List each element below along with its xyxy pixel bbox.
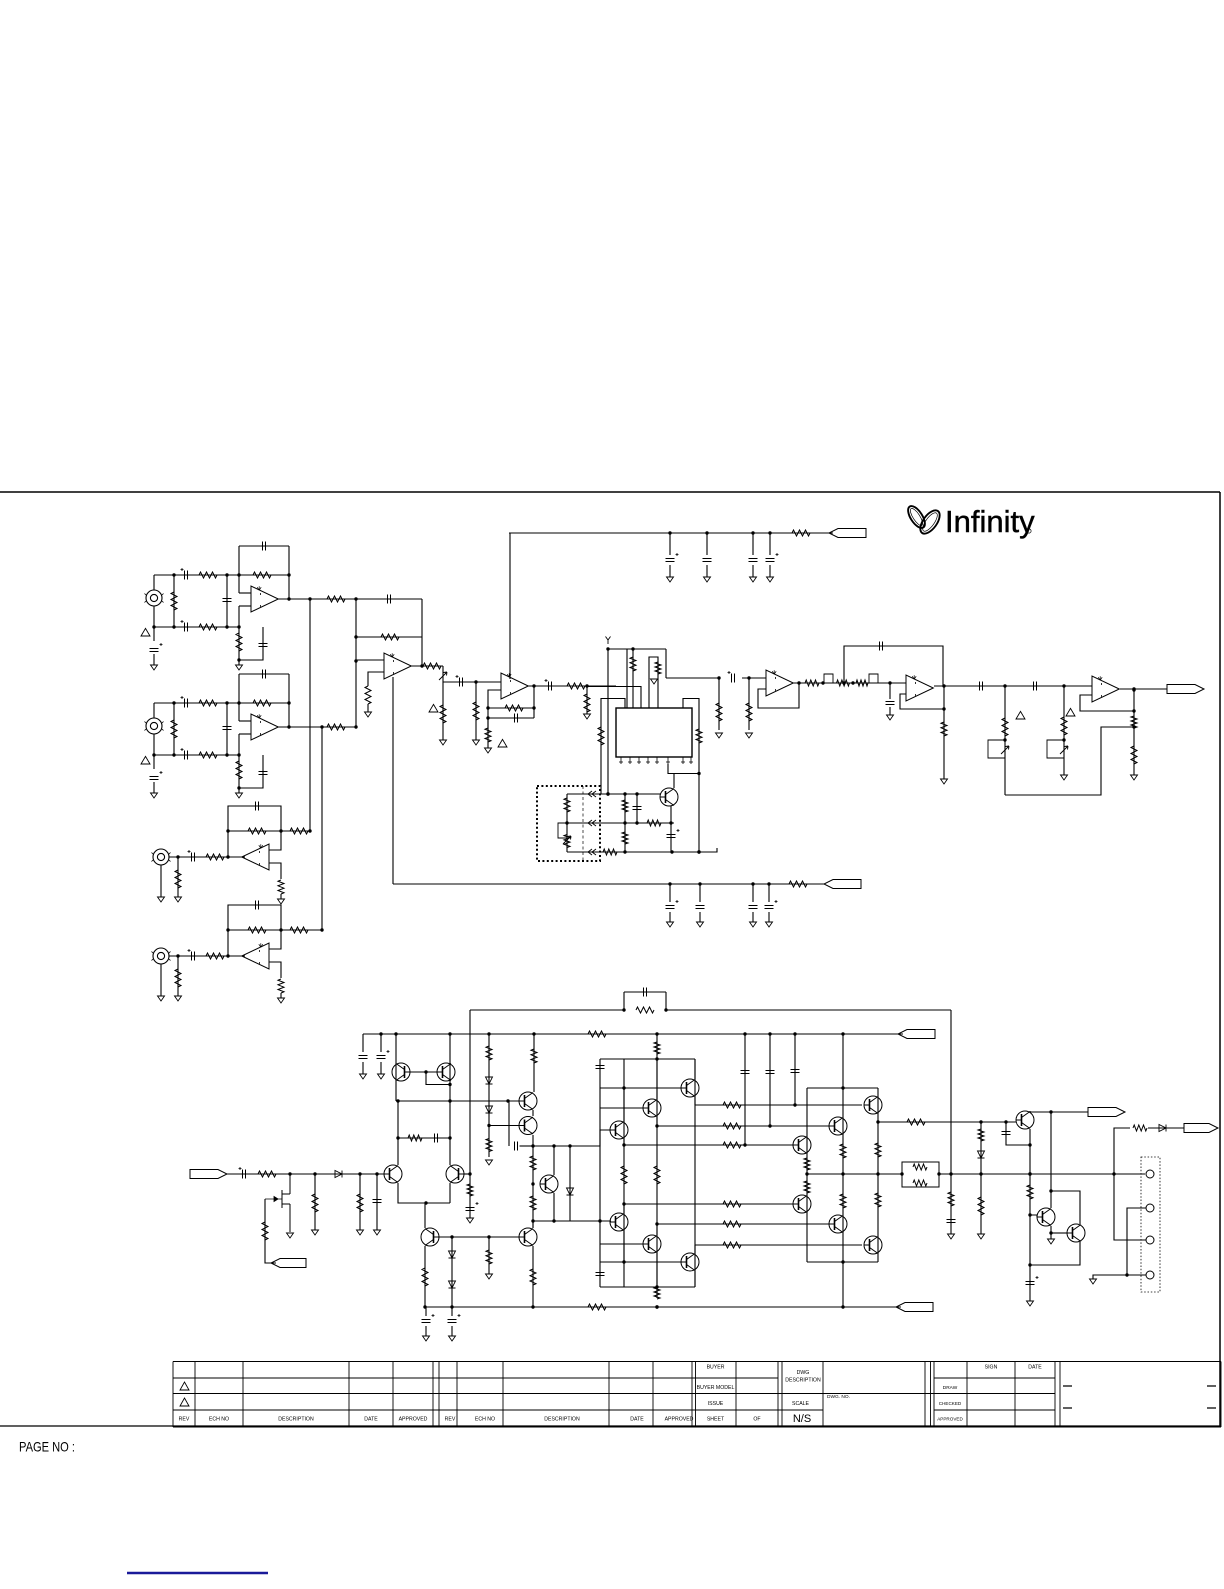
resistor feedback U3 — [505, 705, 523, 711]
junction — [1049, 1189, 1052, 1192]
junction — [531, 1305, 534, 1308]
junction — [768, 1124, 771, 1127]
junction — [531, 1144, 534, 1147]
diode series — [335, 1171, 342, 1178]
resistor cross 2 — [723, 1123, 741, 1129]
ground — [357, 1230, 364, 1235]
junction — [225, 625, 228, 628]
junction rail A — [793, 1032, 796, 1035]
wire — [694, 1245, 696, 1253]
junction — [697, 850, 700, 853]
wire — [670, 806, 672, 823]
wire — [380, 1062, 382, 1074]
wire — [934, 685, 1092, 687]
resistor rail A — [588, 1031, 606, 1037]
trimmer box a — [988, 740, 1005, 758]
wire — [586, 686, 588, 714]
wire — [668, 764, 699, 774]
wire — [567, 848, 717, 852]
wire — [694, 1059, 696, 1079]
junction — [797, 681, 800, 684]
junction — [842, 681, 845, 684]
wire — [623, 1059, 625, 1287]
resistor level a — [1002, 718, 1008, 736]
wire — [699, 912, 701, 922]
wire — [228, 929, 281, 931]
resistor box inner — [564, 798, 570, 812]
wire — [226, 703, 228, 755]
junction — [1028, 1143, 1031, 1146]
resistor row bottom — [603, 849, 617, 855]
wire — [1006, 1122, 1030, 1145]
wire — [699, 884, 701, 902]
diode leg 981 — [978, 1151, 985, 1158]
junction — [664, 1008, 667, 1011]
junction rail cap — [768, 531, 771, 534]
capacitor cc — [435, 1134, 438, 1143]
capacitor feedback — [263, 670, 266, 679]
ground — [486, 1274, 493, 1279]
junction — [622, 1143, 625, 1146]
wire — [877, 1088, 879, 1262]
junction — [623, 850, 626, 853]
IC bottom pins — [619, 757, 693, 764]
junction — [531, 1182, 534, 1185]
dashed inner divider — [582, 786, 584, 861]
junction — [1132, 687, 1135, 690]
junction — [623, 792, 626, 795]
svg-text:PAGE NO :: PAGE NO : — [19, 1440, 75, 1455]
junction — [152, 625, 155, 628]
junction rail cap — [751, 531, 754, 534]
wire — [153, 627, 155, 641]
resistor bleed — [978, 1197, 984, 1215]
wire — [752, 884, 754, 902]
wire — [239, 720, 251, 722]
wire — [489, 1125, 519, 1127]
transistor T9 output — [793, 1136, 811, 1154]
wire — [424, 1204, 426, 1228]
resistor fb bump — [636, 1007, 654, 1013]
capacitor feedback — [263, 542, 266, 551]
capacitor to ground — [259, 644, 268, 647]
capacitor rail2 decouple — [666, 906, 675, 909]
wire — [794, 1034, 796, 1105]
junction — [237, 786, 240, 789]
wire — [281, 929, 322, 931]
wire — [900, 686, 944, 709]
wire — [449, 1183, 451, 1203]
wire — [269, 962, 281, 978]
resistor feedback — [253, 572, 271, 578]
wire — [752, 533, 754, 555]
op-amp U6 — [1092, 676, 1119, 702]
svg-text:BUYER MODEL: BUYER MODEL — [697, 1385, 735, 1391]
junction — [172, 625, 175, 628]
junction — [448, 1099, 451, 1102]
wire — [442, 682, 444, 740]
wire — [669, 533, 671, 555]
resistor shunt U3 in — [473, 702, 479, 720]
resistor to bus — [290, 927, 308, 933]
junction — [622, 1260, 625, 1263]
junction — [655, 1124, 658, 1127]
wire — [227, 702, 289, 704]
wire — [278, 726, 356, 728]
wire — [1030, 1242, 1080, 1265]
dotted box Vbe network — [537, 786, 600, 861]
wire — [177, 956, 179, 996]
wire — [553, 1146, 555, 1175]
capacitor col 745 — [741, 1071, 750, 1074]
resistor shunt IC in — [584, 694, 590, 712]
resistor R stage1 out — [327, 596, 345, 602]
resistor q10 emitter — [422, 1268, 428, 1286]
capacitor q11 — [1026, 1282, 1035, 1285]
resistor IC top 1 — [630, 657, 636, 671]
diode bias 2 — [486, 1106, 493, 1113]
capacitor feedback U2b — [388, 595, 391, 604]
junction — [841, 1086, 844, 1089]
junction rail2 cap — [668, 882, 671, 885]
capacitor pa in — [243, 1170, 246, 1179]
junction — [1049, 1110, 1052, 1113]
wire — [278, 598, 356, 600]
wire — [239, 733, 251, 735]
resistor col 843 b — [840, 1194, 846, 1208]
wire — [533, 1130, 611, 1146]
junction rail A — [841, 1032, 844, 1035]
op-amp U3 — [501, 673, 528, 699]
wire — [656, 1034, 658, 1298]
capacitor shunt — [223, 599, 232, 602]
wire — [228, 830, 281, 832]
wire — [173, 703, 175, 755]
capacitor zobel — [947, 1220, 956, 1223]
capacitor fb bump — [644, 988, 647, 997]
wire — [154, 702, 227, 704]
wire — [1114, 1128, 1146, 1240]
wire — [567, 822, 674, 824]
wire — [649, 657, 658, 708]
wire — [405, 1071, 442, 1073]
revision triangle 2 — [180, 1398, 189, 1406]
svg-text:DWG. NO.: DWG. NO. — [827, 1394, 850, 1400]
wire — [718, 678, 720, 730]
wire — [669, 565, 671, 577]
resistor zobel — [948, 1192, 954, 1206]
ground — [697, 922, 704, 927]
wire — [706, 533, 708, 555]
wire — [487, 718, 489, 748]
junction — [585, 684, 588, 687]
transistor Q2 diff — [384, 1165, 402, 1183]
delta marker U3 — [429, 704, 438, 712]
capacitor feedback U3 — [515, 714, 518, 723]
wire — [280, 894, 282, 899]
wire — [288, 546, 290, 599]
resistor row mid — [647, 820, 661, 826]
capacitor col 795 — [791, 1070, 800, 1073]
trimmer wiper b — [1060, 746, 1068, 754]
capacitor rail2 decouple — [749, 906, 758, 909]
wire — [227, 1173, 384, 1175]
wire — [807, 1173, 902, 1175]
resistor shunt — [171, 720, 177, 738]
wire — [509, 532, 833, 534]
ground — [887, 715, 894, 720]
resistor shunt — [175, 969, 181, 987]
capacitor rail decouple — [766, 559, 775, 562]
terminal 1 — [1146, 1170, 1154, 1178]
wire — [695, 1244, 862, 1246]
wire — [160, 964, 162, 996]
resistor line 1122 — [907, 1119, 925, 1125]
capacitor series — [192, 853, 195, 862]
junction — [1049, 1231, 1052, 1234]
wire — [469, 1174, 471, 1218]
resistor series — [206, 953, 224, 959]
connector rail B — [896, 1303, 933, 1312]
ground — [766, 922, 773, 927]
wire — [177, 857, 179, 897]
wire — [769, 533, 771, 555]
delta marker — [141, 756, 150, 764]
wire — [488, 707, 534, 709]
IC U10 body — [616, 708, 692, 757]
junction rail cap — [668, 531, 671, 534]
ground — [151, 793, 158, 798]
wire feedback left — [238, 546, 240, 593]
ground — [175, 996, 182, 1001]
capacitor rail decouple — [703, 559, 712, 562]
trimmer box — [558, 823, 567, 838]
ground — [750, 577, 757, 582]
junction — [486, 716, 489, 719]
junction — [841, 1305, 844, 1308]
capacitor U5 in — [886, 702, 895, 705]
connector power in — [190, 1170, 227, 1179]
resistor rail B — [588, 1304, 606, 1310]
junction bus 4 — [320, 928, 323, 931]
wire — [488, 1034, 490, 1157]
capacitor coupling a — [980, 682, 983, 691]
op-amp U5 — [906, 675, 933, 701]
resistor col top — [654, 1042, 660, 1054]
transistor Q6 vbe — [519, 1092, 537, 1110]
wire — [362, 1034, 364, 1052]
capacitor to ground — [259, 772, 268, 775]
junction — [1028, 1172, 1031, 1175]
capacitor block edge top — [596, 1066, 605, 1069]
junction — [287, 701, 290, 704]
wire — [488, 717, 534, 719]
junction — [474, 680, 477, 683]
wire — [239, 545, 289, 547]
svg-text:ISSUE: ISSUE — [708, 1401, 724, 1407]
resistor link b — [856, 680, 868, 686]
ground — [1048, 1239, 1055, 1244]
ground — [1090, 1279, 1097, 1284]
wire — [426, 1072, 450, 1085]
wire — [1063, 686, 1065, 775]
wire — [656, 1224, 658, 1235]
blue underline mark — [127, 1572, 268, 1574]
resistor shunt — [171, 592, 177, 610]
resistor series bottom — [199, 752, 217, 758]
border frame bottom — [0, 1425, 1220, 1427]
junction — [424, 1070, 427, 1073]
wire — [632, 649, 634, 708]
resistor RL bottom — [913, 1180, 927, 1186]
connector rail A — [898, 1030, 935, 1039]
junction rail A — [394, 1032, 397, 1035]
wire — [362, 1062, 364, 1074]
svg-text:SCALE: SCALE — [792, 1401, 810, 1407]
wire — [669, 912, 671, 922]
capacitor rail A 2 — [377, 1056, 386, 1059]
wire — [666, 1009, 951, 1011]
wire — [878, 1121, 1016, 1123]
junction — [670, 850, 673, 853]
wire — [600, 1286, 695, 1288]
wire — [239, 755, 263, 788]
wire — [950, 1174, 952, 1234]
junction — [565, 821, 568, 824]
junction — [354, 597, 357, 600]
wire — [442, 666, 444, 682]
junction — [1003, 684, 1006, 687]
junction rail A — [768, 1032, 771, 1035]
wire — [939, 1173, 1145, 1175]
wire — [532, 1246, 534, 1307]
resistor shunt a — [312, 1194, 318, 1212]
wire — [532, 1135, 534, 1228]
junction — [942, 684, 945, 687]
junction — [176, 954, 179, 957]
wire — [451, 1307, 453, 1316]
wire — [488, 690, 501, 733]
ground — [767, 577, 774, 582]
ground — [485, 748, 492, 753]
capacitor 1006 — [1002, 1132, 1011, 1135]
svg-text:BUYER: BUYER — [707, 1365, 725, 1371]
junction — [279, 928, 282, 931]
ground — [1027, 1301, 1034, 1306]
junction — [851, 681, 854, 684]
connector V+ supply — [829, 529, 866, 538]
diode bias 1 — [486, 1077, 493, 1084]
wire — [752, 565, 754, 577]
junction — [424, 1201, 427, 1204]
svg-text:Infinity: Infinity — [945, 504, 1035, 539]
resistor vbe top — [531, 1049, 537, 1063]
ground — [667, 577, 674, 582]
resistor vbe a — [530, 1156, 536, 1170]
transistor Q11 protect — [1016, 1111, 1034, 1129]
wire — [239, 592, 251, 594]
svg-text:REV: REV — [179, 1417, 190, 1423]
wire — [793, 682, 906, 684]
wire — [227, 574, 289, 576]
wire — [1030, 1111, 1088, 1112]
wire — [768, 884, 770, 902]
wire — [509, 533, 511, 679]
trimmer box b — [1047, 740, 1064, 758]
svg-text:OF: OF — [753, 1417, 760, 1423]
transistor Q8 vas — [519, 1228, 537, 1246]
wire — [742, 677, 766, 679]
junction — [226, 829, 229, 832]
wire — [600, 1107, 643, 1109]
wire — [1127, 1208, 1146, 1275]
wire — [520, 1145, 534, 1147]
wire — [469, 1010, 471, 1174]
ground — [440, 740, 447, 745]
wire — [623, 1088, 625, 1121]
ground — [449, 1336, 456, 1341]
wire — [601, 699, 625, 795]
junction — [1132, 725, 1135, 728]
resistor shunt — [175, 870, 181, 888]
wire — [443, 681, 501, 683]
junction rail A — [448, 1032, 451, 1035]
wire — [623, 1139, 625, 1145]
connector trigger — [1088, 1108, 1125, 1117]
trimmer arrow mark — [439, 672, 447, 680]
wire — [694, 1059, 696, 1287]
wire — [758, 683, 799, 708]
resistor fb gnd — [467, 1184, 473, 1196]
capacitor col — [633, 807, 642, 810]
power flag IC — [606, 637, 611, 645]
wire — [153, 606, 155, 627]
resistor inner a — [621, 1166, 627, 1184]
resistor cross 1 — [723, 1102, 741, 1108]
wire — [314, 1174, 316, 1230]
resistor q8 emitter — [530, 1269, 536, 1285]
transistor T6 driver — [681, 1253, 699, 1271]
junction rail2 cap — [751, 882, 754, 885]
wire — [359, 1174, 361, 1230]
junction — [900, 1172, 903, 1175]
resistor sense — [1133, 1125, 1147, 1131]
junction — [606, 792, 609, 795]
transistor Q13 protect — [1067, 1224, 1085, 1242]
connector sense out — [1184, 1124, 1218, 1133]
resistor cross 5 — [723, 1221, 741, 1227]
resistor trimmer — [564, 835, 570, 848]
wire — [488, 1237, 490, 1274]
junction — [506, 1099, 509, 1102]
delta marker a — [1016, 711, 1025, 719]
wire — [683, 699, 699, 853]
output RL network — [902, 1162, 939, 1187]
wire — [169, 955, 245, 957]
capacitor block edge bottom — [596, 1273, 605, 1276]
junction — [1028, 1213, 1031, 1216]
ground — [948, 1234, 955, 1239]
junction — [487, 1124, 490, 1127]
wire — [228, 905, 281, 930]
junction — [172, 573, 175, 576]
resistor col bottom — [654, 1287, 660, 1299]
resistor U2b out — [423, 663, 441, 669]
resistor col 807 b — [804, 1181, 810, 1193]
junction — [888, 681, 891, 684]
ground — [978, 1234, 985, 1239]
transistor Q1 — [660, 788, 678, 806]
